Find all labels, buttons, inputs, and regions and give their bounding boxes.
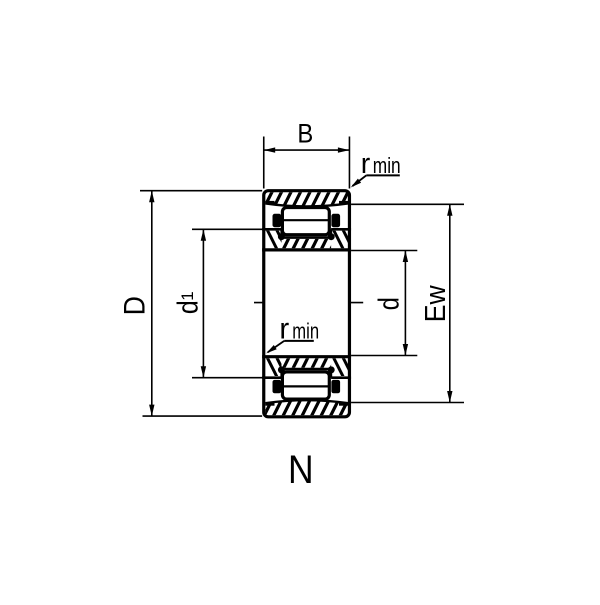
cage lower section bbox=[273, 366, 341, 393]
label r min (top, outer ring corner radius) bbox=[351, 148, 401, 188]
dimension D (outside diameter) bbox=[118, 191, 262, 416]
label r min (middle, inner ring corner radius) bbox=[266, 312, 319, 353]
svg-text:N: N bbox=[288, 448, 314, 492]
dimension B (width) bbox=[264, 119, 350, 188]
cylindrical roller upper bbox=[282, 208, 329, 235]
bearing axis centerline bbox=[254, 302, 363, 304]
dimension Ew (outer raceway diameter) bbox=[351, 204, 464, 402]
svg-text:d: d bbox=[172, 300, 204, 314]
bearing body background bbox=[264, 191, 350, 417]
bearing outline bbox=[264, 191, 350, 417]
outer ring lower cross-section (hatched) bbox=[264, 399, 358, 416]
svg-text:d: d bbox=[372, 297, 405, 310]
inner ring lower cross-section with flanges (hatched) bbox=[262, 357, 352, 378]
inner ring upper cross-section with flanges (hatched) bbox=[262, 229, 352, 250]
svg-text:B: B bbox=[297, 119, 313, 148]
svg-text:D: D bbox=[118, 296, 151, 315]
svg-text:1: 1 bbox=[178, 291, 197, 300]
dimension d (bore diameter) bbox=[351, 251, 417, 356]
svg-text:Ew: Ew bbox=[419, 284, 451, 322]
cage upper section bbox=[273, 214, 341, 240]
dimension d1 (inner ring flange diameter) bbox=[172, 229, 266, 377]
outer ring upper cross-section (hatched) bbox=[264, 191, 358, 208]
cylindrical roller lower bbox=[282, 372, 329, 399]
